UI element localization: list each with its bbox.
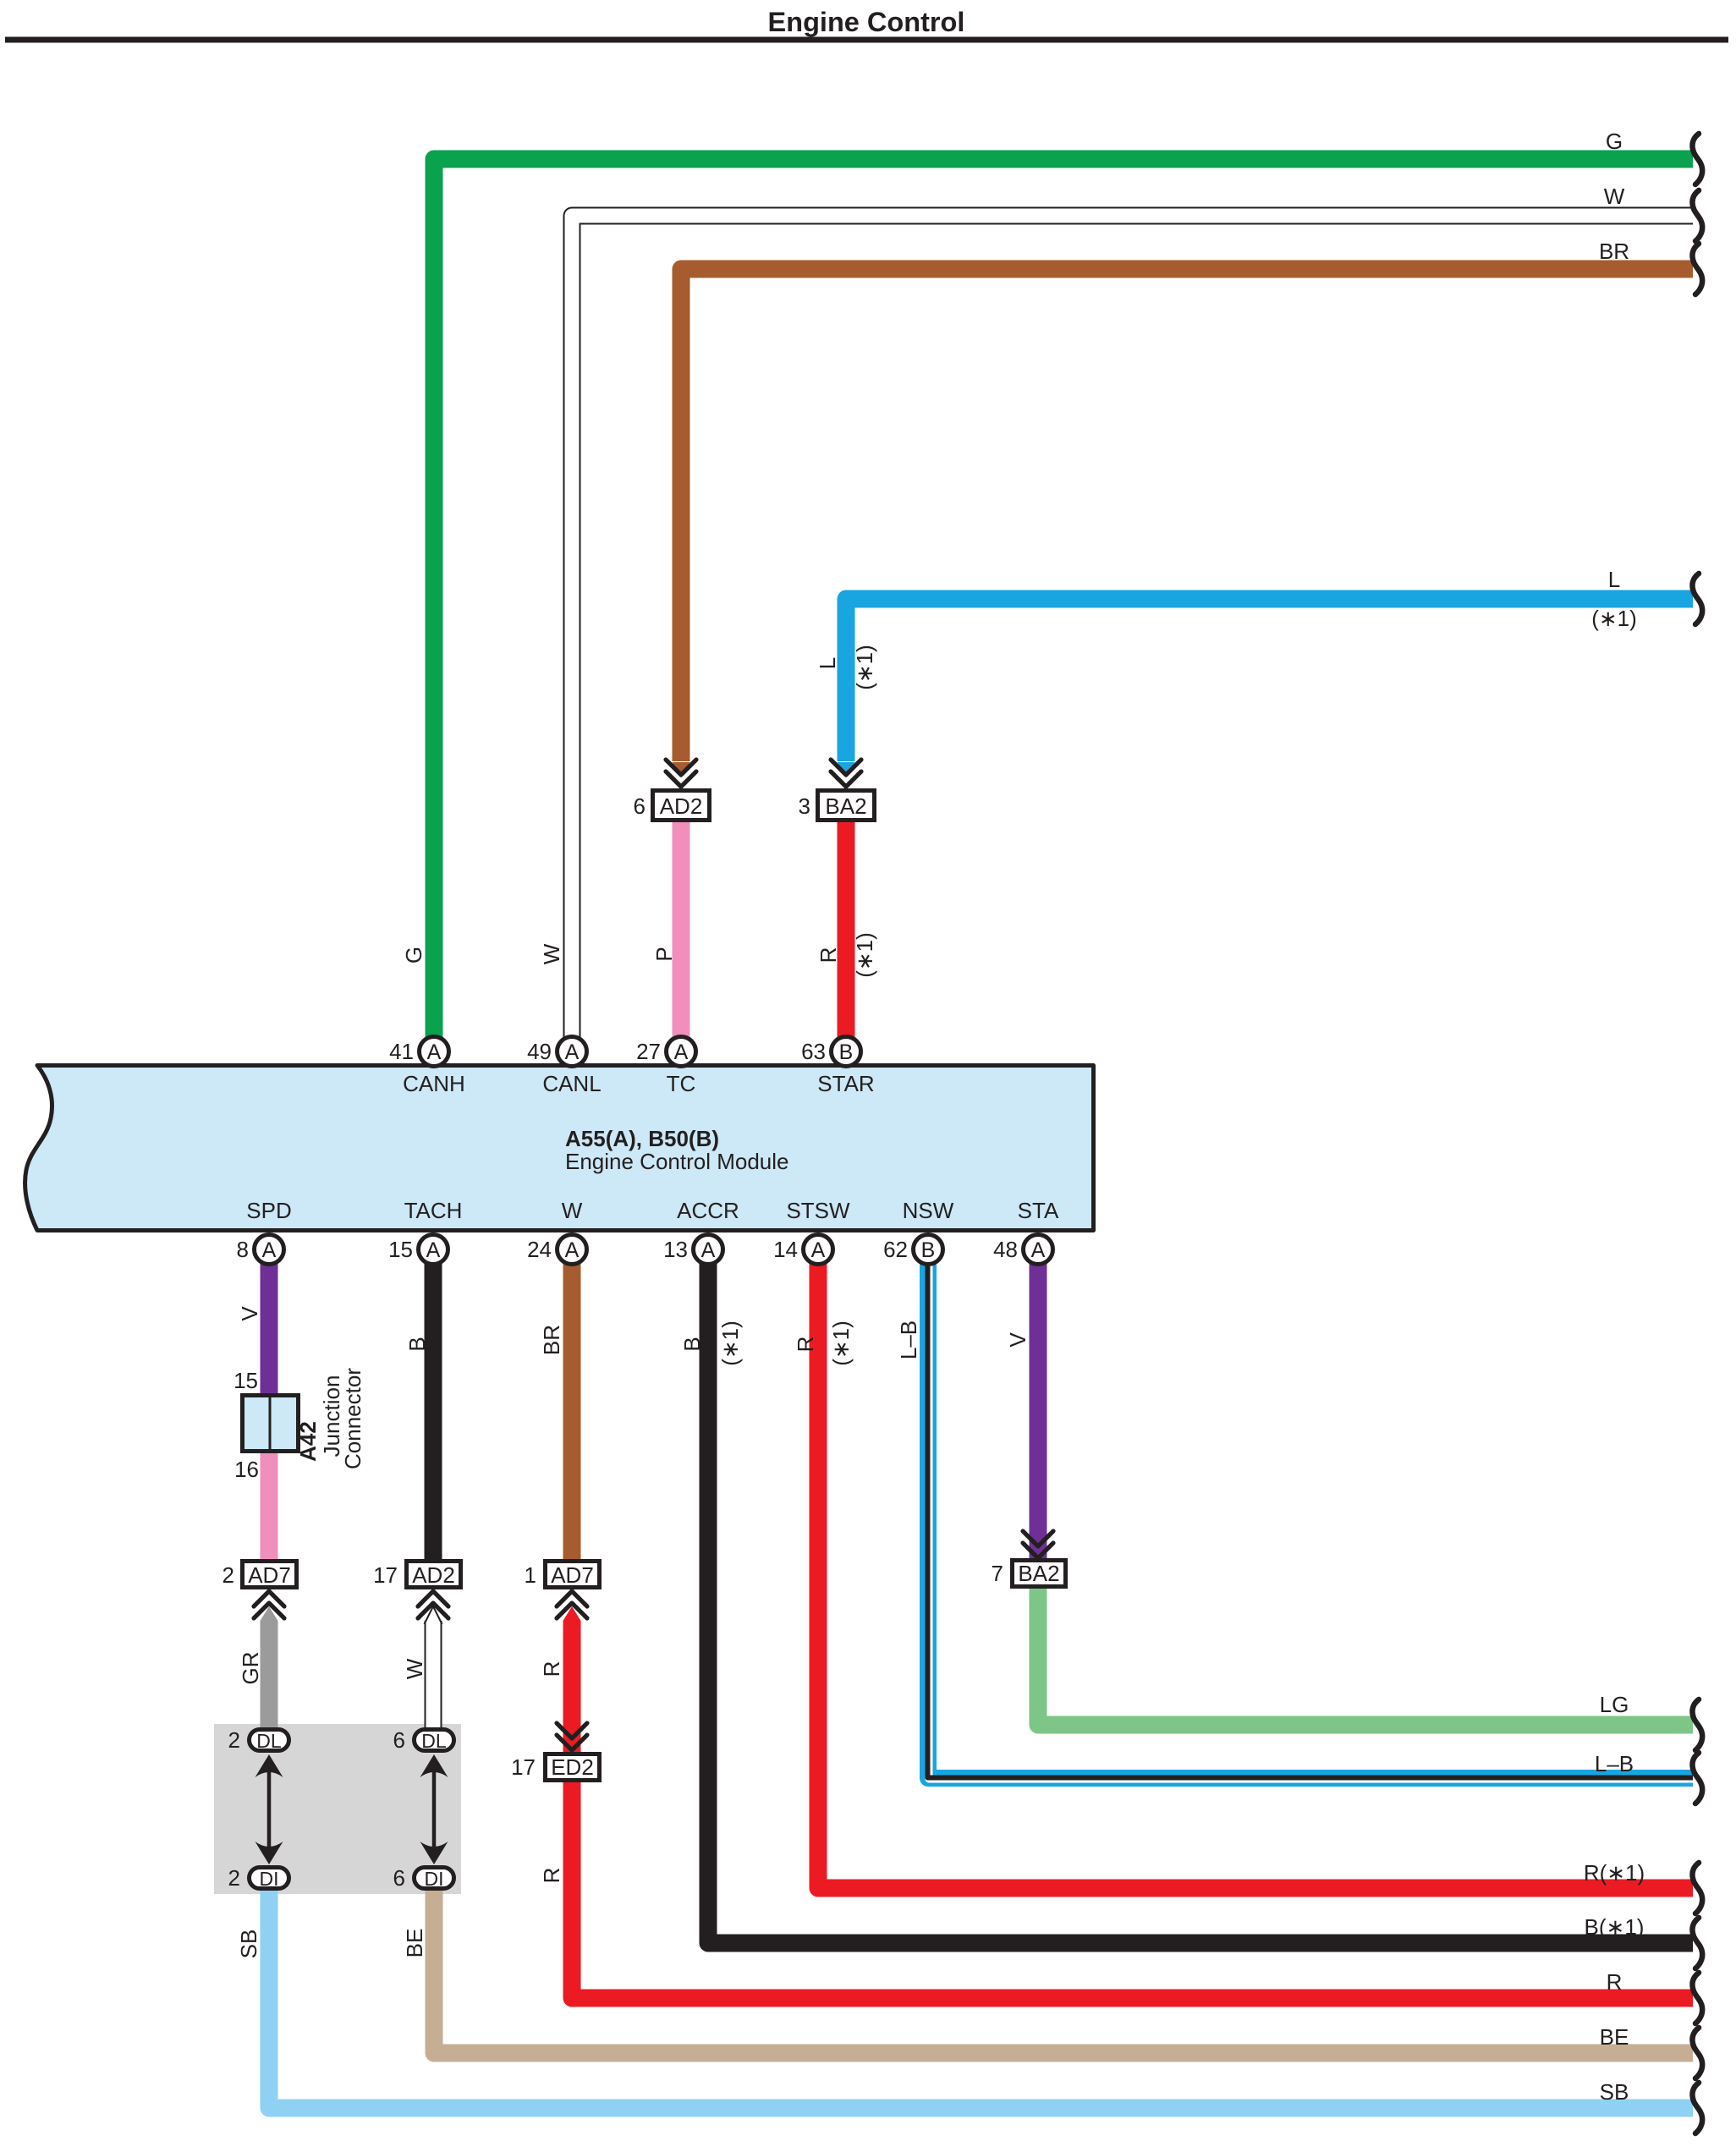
svg-text:15: 15 xyxy=(233,1368,258,1393)
svg-text:15: 15 xyxy=(388,1237,413,1262)
svg-text:A: A xyxy=(701,1238,716,1262)
junction oval 6 DI xyxy=(393,1865,454,1891)
svg-text:1: 1 xyxy=(525,1562,536,1588)
svg-text:TC: TC xyxy=(667,1071,696,1096)
svg-text:W: W xyxy=(562,1198,583,1223)
wire L pointed tip into chevron xyxy=(838,762,855,778)
svg-text:AD7: AD7 xyxy=(551,1562,594,1588)
junction oval 2 DL xyxy=(228,1727,289,1753)
wire W (CANL to right break) outline xyxy=(572,216,1693,1040)
connector 2 AD7 xyxy=(222,1562,297,1589)
wire R (below 1 AD7 chevron through chevron to 17 ED2) xyxy=(563,1621,581,1754)
svg-text:A: A xyxy=(565,1040,580,1064)
wire V (pin 8 to A42) xyxy=(261,1262,278,1397)
svg-text:A: A xyxy=(262,1238,277,1262)
junction connector A42 xyxy=(243,1396,299,1452)
svg-text:49: 49 xyxy=(527,1039,552,1064)
wire L-B white gap xyxy=(929,1262,1693,1779)
pin 48 A circle xyxy=(993,1235,1052,1265)
wire W (CANL to right break) white core xyxy=(572,216,1693,1042)
pin 41 A circle xyxy=(389,1037,448,1067)
svg-text:A: A xyxy=(426,1238,441,1262)
svg-text:V: V xyxy=(1005,1332,1030,1348)
svg-text:W: W xyxy=(1604,184,1625,209)
wire GR (below 2 AD7 chevron to 2 DL) xyxy=(261,1621,278,1731)
svg-text:A: A xyxy=(1031,1238,1046,1262)
svg-text:(∗1): (∗1) xyxy=(852,932,877,978)
svg-text:CANL: CANL xyxy=(542,1071,601,1096)
pin 24 A circle xyxy=(527,1235,586,1265)
connector 1 AD7 xyxy=(525,1562,600,1589)
svg-text:CANH: CANH xyxy=(403,1071,465,1096)
svg-text:L–B: L–B xyxy=(896,1320,921,1359)
svg-text:DL: DL xyxy=(421,1730,447,1752)
svg-text:L: L xyxy=(1608,567,1620,592)
svg-text:W: W xyxy=(402,1658,427,1679)
svg-text:NSW: NSW xyxy=(903,1198,954,1223)
svg-text:8: 8 xyxy=(237,1237,249,1262)
double arrow between 6 DL and 6 DI xyxy=(420,1754,448,1864)
svg-text:6: 6 xyxy=(634,793,646,819)
connector 17 ED2 xyxy=(511,1754,599,1781)
svg-text:BR: BR xyxy=(1599,239,1629,264)
svg-text:48: 48 xyxy=(993,1237,1018,1262)
svg-text:2: 2 xyxy=(222,1562,234,1588)
connector 6 AD2 xyxy=(634,791,710,821)
svg-text:(∗1): (∗1) xyxy=(828,1320,854,1366)
svg-text:A: A xyxy=(427,1040,442,1064)
connector 17 AD2 xyxy=(373,1562,460,1589)
svg-text:Engine Control: Engine Control xyxy=(768,7,965,37)
svg-text:B: B xyxy=(839,1040,854,1064)
chevron arrow up below 1 AD7 xyxy=(557,1591,587,1618)
svg-text:63: 63 xyxy=(801,1039,826,1064)
svg-text:STA: STA xyxy=(1018,1198,1059,1223)
svg-text:DI: DI xyxy=(260,1868,279,1890)
svg-text:7: 7 xyxy=(992,1561,1003,1586)
wire L-B black stripe xyxy=(928,1262,1694,1778)
svg-text:B: B xyxy=(921,1238,936,1262)
wire W pointed tip into chevron xyxy=(425,1606,442,1624)
wire G (CANH to right break) xyxy=(434,159,1693,1040)
svg-text:AD2: AD2 xyxy=(412,1562,455,1588)
break symbol for wire G xyxy=(1692,134,1702,184)
svg-text:B(∗1): B(∗1) xyxy=(1585,1914,1645,1940)
svg-text:3: 3 xyxy=(799,793,810,819)
svg-text:AD2: AD2 xyxy=(660,793,703,819)
svg-text:B: B xyxy=(679,1337,705,1351)
chevron arrow down into 17 ED2 xyxy=(557,1723,587,1750)
pin 63 B circle xyxy=(801,1037,860,1067)
svg-text:A: A xyxy=(674,1040,689,1064)
svg-text:BE: BE xyxy=(1600,2024,1629,2050)
break symbol for wire BR xyxy=(1692,244,1702,294)
chevron arrow down into 3 BA2 xyxy=(831,760,861,787)
wire BR pointed tip into chevron xyxy=(673,762,690,778)
ECM box A55(A) B50(B) xyxy=(25,1066,1094,1231)
svg-text:STSW: STSW xyxy=(786,1198,850,1223)
break symbol for wire R(*1) xyxy=(1692,1863,1702,1913)
wire LG (7 BA2 down and right to break) xyxy=(1038,1587,1693,1725)
svg-text:DI: DI xyxy=(425,1868,444,1890)
svg-text:17: 17 xyxy=(511,1754,536,1780)
svg-text:24: 24 xyxy=(527,1237,552,1262)
svg-text:R: R xyxy=(539,1661,564,1677)
svg-text:A: A xyxy=(565,1238,580,1262)
wire B(*1) (pin 13 down and right to break) xyxy=(708,1262,1693,1943)
svg-text:2: 2 xyxy=(228,1727,240,1753)
wire B (pin 15 to 17 AD2) xyxy=(425,1262,442,1562)
svg-text:6: 6 xyxy=(393,1865,405,1891)
svg-text:(∗1): (∗1) xyxy=(1591,606,1637,631)
wire R pointed tip into chevron xyxy=(563,1606,581,1621)
svg-text:17: 17 xyxy=(373,1562,398,1588)
connector 7 BA2 xyxy=(992,1561,1066,1587)
svg-text:14: 14 xyxy=(773,1237,798,1262)
pin 49 A circle xyxy=(527,1037,586,1067)
svg-text:16: 16 xyxy=(234,1457,259,1482)
svg-text:R: R xyxy=(816,947,841,963)
wire W white core xyxy=(426,1622,441,1729)
wire P (A42 to 2 AD7) xyxy=(261,1449,278,1562)
svg-text:2: 2 xyxy=(228,1865,240,1891)
wire L-B (pin 62 down and right to break) blue base xyxy=(928,1262,1693,1778)
svg-text:6: 6 xyxy=(393,1727,405,1753)
svg-text:62: 62 xyxy=(883,1237,908,1262)
svg-text:41: 41 xyxy=(389,1039,414,1064)
break symbol for wire SB xyxy=(1692,2083,1702,2133)
svg-text:P: P xyxy=(651,947,677,961)
svg-text:B: B xyxy=(404,1337,430,1351)
svg-text:LG: LG xyxy=(1600,1692,1629,1717)
svg-text:ACCR: ACCR xyxy=(677,1198,739,1223)
wire R (17 ED2 down and right to break) xyxy=(572,1781,1693,1998)
svg-text:BA2: BA2 xyxy=(1018,1561,1059,1586)
wire V (pin 48 through chevron to 7 BA2) xyxy=(1030,1262,1047,1560)
break symbol for wire R xyxy=(1692,1973,1702,2023)
break symbol for wire L xyxy=(1692,574,1702,624)
svg-text:G: G xyxy=(1606,129,1623,154)
svg-text:DL: DL xyxy=(256,1730,282,1752)
pin 14 A circle xyxy=(773,1235,832,1265)
wire R(*1) (3 BA2 to pin 63) xyxy=(838,820,855,1040)
wire R(*1) (pin 14 down and right to break) xyxy=(818,1262,1693,1888)
wire GR pointed tip into chevron xyxy=(261,1606,278,1621)
svg-text:(∗1): (∗1) xyxy=(852,645,877,690)
svg-text:AD7: AD7 xyxy=(248,1562,291,1588)
break symbol for wire B(*1) xyxy=(1692,1918,1702,1968)
svg-text:R: R xyxy=(539,1868,564,1884)
connector 3 BA2 xyxy=(799,791,875,821)
svg-text:G: G xyxy=(401,947,426,963)
svg-text:SPD: SPD xyxy=(246,1198,291,1223)
pin 27 A circle xyxy=(636,1037,695,1067)
svg-text:W: W xyxy=(539,943,564,964)
pin 13 A circle xyxy=(663,1235,722,1265)
svg-text:SB: SB xyxy=(1600,2079,1629,2105)
wire SB (2 DI down and right to break) xyxy=(269,1888,1693,2108)
wire W (below 17 AD2 chevron to 6 DL) outline xyxy=(425,1621,442,1731)
svg-text:BE: BE xyxy=(402,1929,427,1958)
svg-text:GR: GR xyxy=(238,1652,263,1685)
svg-text:L: L xyxy=(815,657,840,669)
svg-text:A55(A), B50(B): A55(A), B50(B) xyxy=(565,1126,719,1151)
svg-text:ED2: ED2 xyxy=(551,1754,594,1780)
svg-text:27: 27 xyxy=(636,1039,661,1064)
svg-text:STAR: STAR xyxy=(817,1071,874,1096)
svg-text:A42: A42 xyxy=(295,1421,321,1462)
wire BR (pin 24 to 1 AD7) xyxy=(563,1262,581,1562)
svg-text:Connector: Connector xyxy=(340,1368,365,1469)
junction oval 2 DI xyxy=(228,1865,289,1891)
svg-text:TACH: TACH xyxy=(404,1198,463,1223)
svg-text:L–B: L–B xyxy=(1595,1751,1634,1776)
wire BR (to 6 AD2 and right break) xyxy=(681,269,1693,761)
svg-text:R: R xyxy=(793,1337,818,1353)
junction oval 6 DL xyxy=(393,1727,454,1753)
svg-text:13: 13 xyxy=(663,1237,688,1262)
svg-text:BA2: BA2 xyxy=(825,793,866,819)
break symbol for wire W xyxy=(1692,190,1702,241)
svg-text:R(∗1): R(∗1) xyxy=(1584,1860,1645,1886)
chevron arrow down into 7 BA2 xyxy=(1023,1531,1053,1558)
chevron arrow down into 6 AD2 xyxy=(666,760,696,787)
wire L (to 3 BA2 and right break) xyxy=(846,599,1693,761)
title rule xyxy=(5,37,1728,43)
break symbol for wire LG xyxy=(1692,1699,1702,1750)
svg-text:(∗1): (∗1) xyxy=(717,1320,743,1366)
pin 8 A circle xyxy=(237,1235,284,1265)
svg-text:Engine Control Module: Engine Control Module xyxy=(565,1149,789,1174)
gray junction block DL/DI xyxy=(214,1724,461,1894)
pin 15 A circle xyxy=(388,1235,448,1265)
svg-text:R: R xyxy=(1607,1969,1623,1995)
break symbol for wire BE xyxy=(1692,2028,1702,2078)
wire BE (6 DI down and right to break) xyxy=(434,1888,1693,2053)
svg-text:V: V xyxy=(237,1306,262,1321)
chevron arrow up below 2 AD7 xyxy=(254,1591,284,1618)
svg-text:BR: BR xyxy=(539,1325,564,1355)
double arrow between 2 DL and 2 DI xyxy=(255,1754,283,1864)
chevron arrow up below 17 AD2 xyxy=(418,1591,448,1618)
svg-text:A: A xyxy=(811,1238,826,1262)
break symbol for wire L-B xyxy=(1692,1753,1702,1803)
pin 62 B circle xyxy=(883,1235,942,1265)
svg-text:SB: SB xyxy=(236,1930,261,1959)
wire P (6 AD2 to pin 27) xyxy=(673,820,690,1040)
